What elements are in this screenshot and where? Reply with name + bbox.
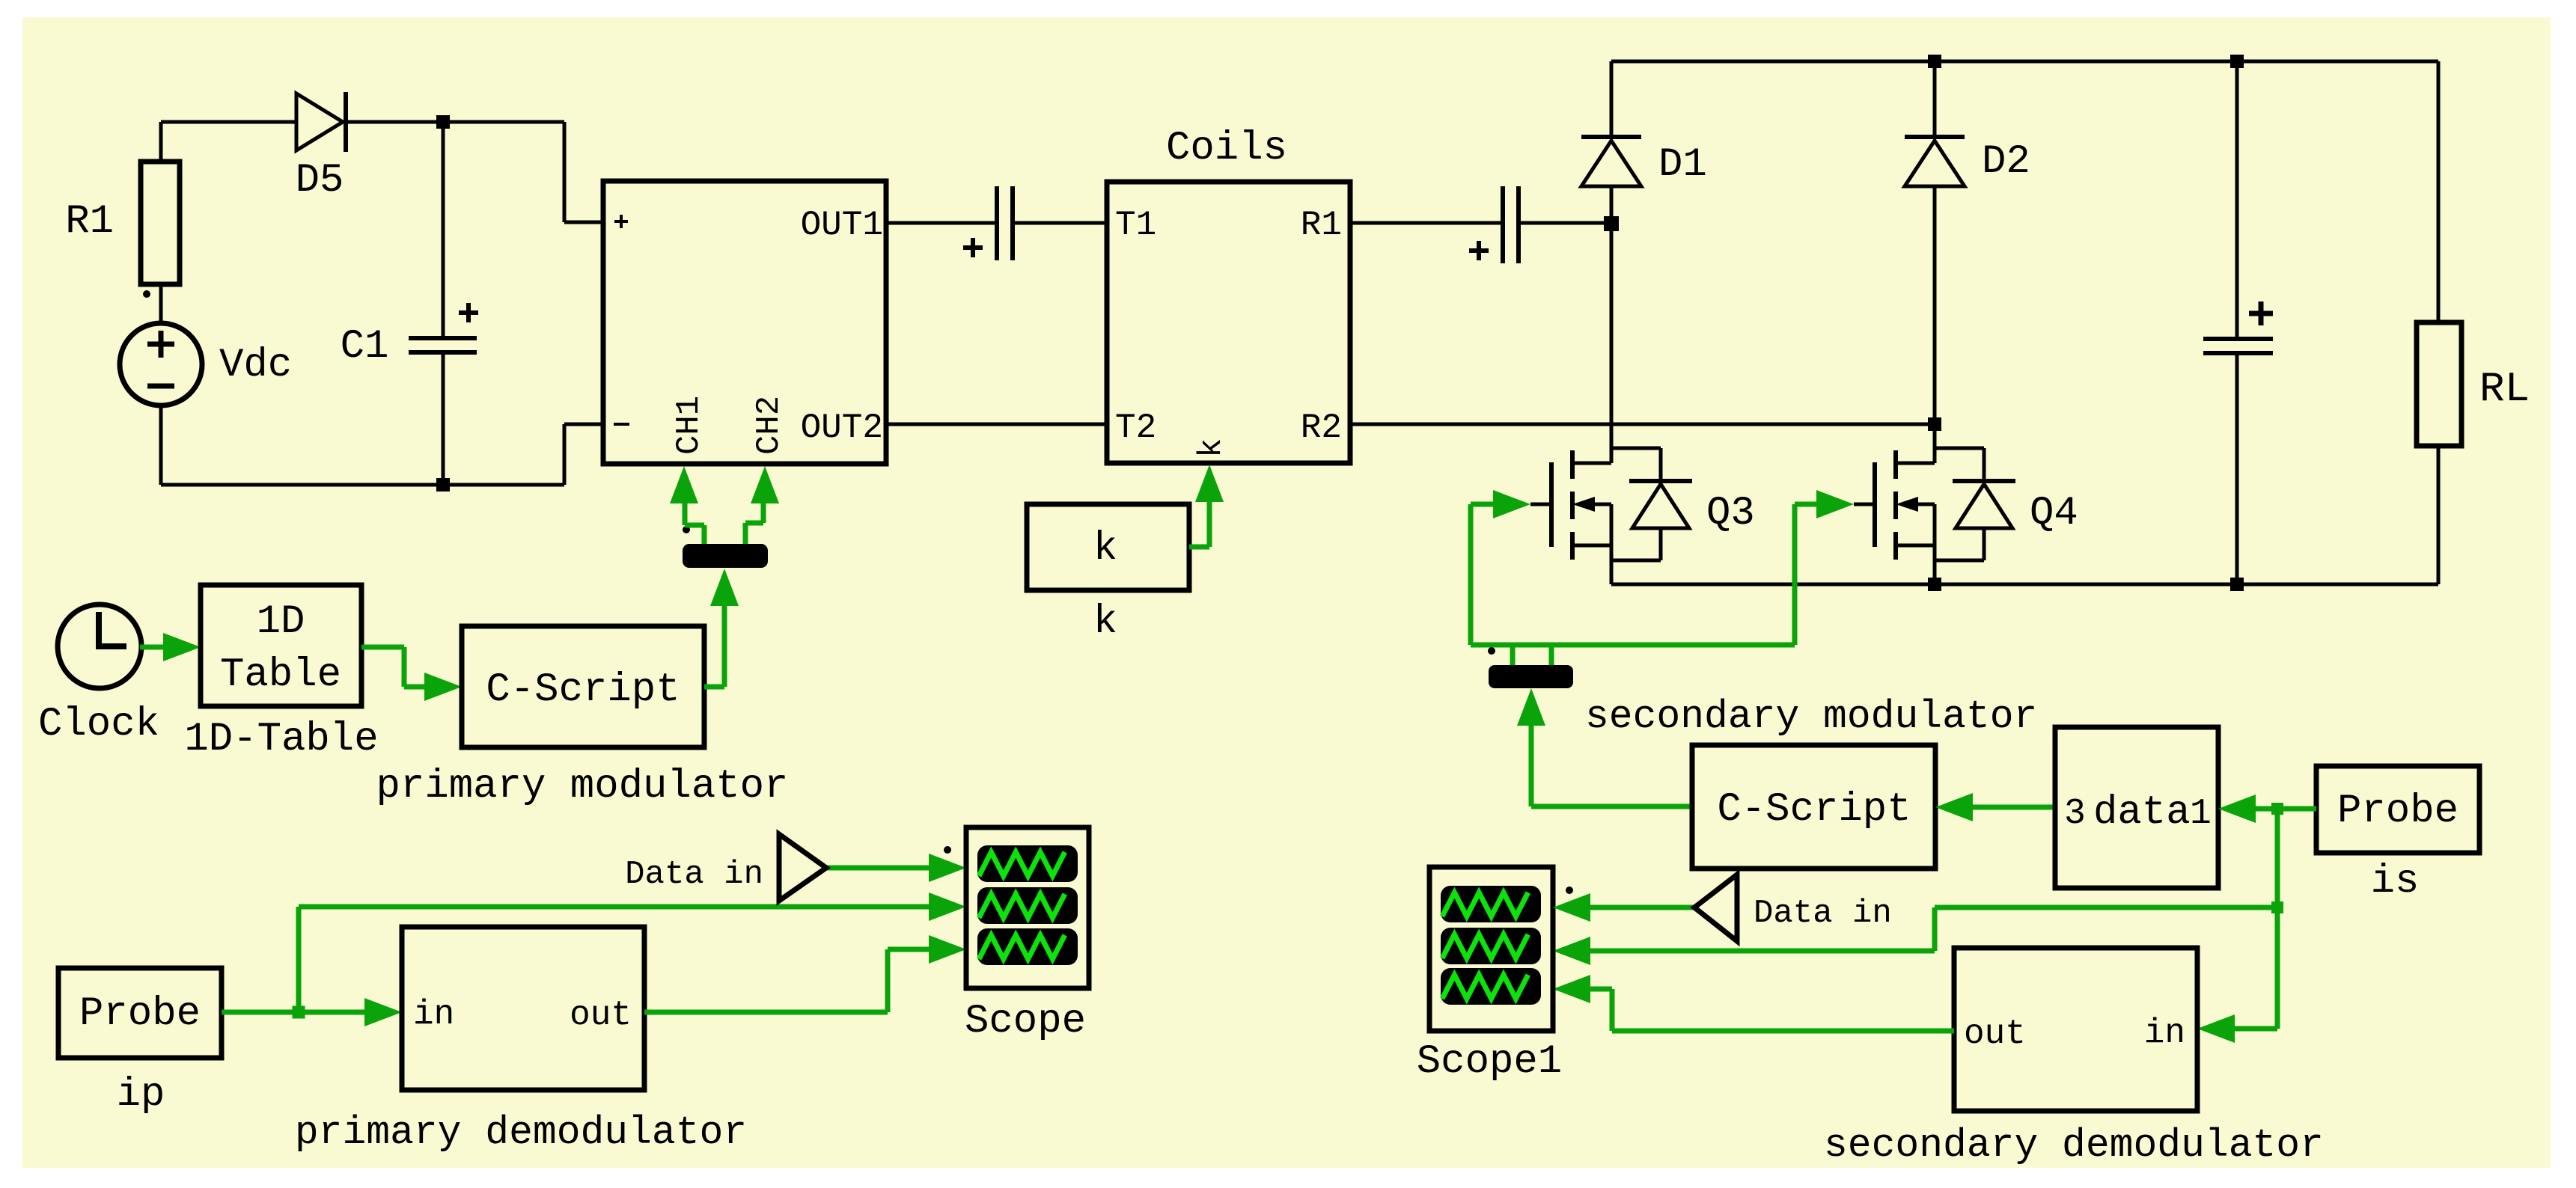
svg-text:Probe: Probe xyxy=(79,991,201,1037)
svg-text:Vdc: Vdc xyxy=(219,343,292,388)
svg-text:out: out xyxy=(570,996,632,1035)
svg-text:Coils: Coils xyxy=(1166,126,1287,171)
svg-text:OUT2: OUT2 xyxy=(801,408,883,447)
svg-text:in: in xyxy=(2144,1014,2185,1053)
svg-text:Probe: Probe xyxy=(2337,789,2459,834)
svg-text:C-Script: C-Script xyxy=(486,667,680,713)
svg-text:k: k xyxy=(1193,438,1230,458)
svg-text:Q3: Q3 xyxy=(1706,491,1755,536)
svg-text:Scope1: Scope1 xyxy=(1417,1039,1562,1085)
svg-text:T1: T1 xyxy=(1115,206,1156,245)
svg-text:OUT1: OUT1 xyxy=(801,206,883,245)
svg-text:Clock: Clock xyxy=(38,702,159,747)
svg-text:Q4: Q4 xyxy=(2030,491,2078,536)
svg-text:C1: C1 xyxy=(341,324,389,370)
svg-text:secondary demodulator: secondary demodulator xyxy=(1824,1123,2324,1168)
svg-text:1: 1 xyxy=(2190,794,2212,834)
svg-text:in: in xyxy=(413,995,454,1034)
svg-text:CH2: CH2 xyxy=(751,396,788,455)
svg-text:Data in: Data in xyxy=(625,856,763,893)
svg-text:ip: ip xyxy=(117,1072,165,1118)
svg-text:D5: D5 xyxy=(296,158,344,203)
svg-text:D1: D1 xyxy=(1658,142,1707,188)
svg-text:secondary modulator: secondary modulator xyxy=(1585,694,2037,739)
svg-text:RL: RL xyxy=(2479,365,2530,413)
svg-text:1D-Table: 1D-Table xyxy=(184,717,378,762)
svg-text:R1: R1 xyxy=(65,199,114,245)
svg-text:primary modulator: primary modulator xyxy=(376,764,789,809)
svg-text:out: out xyxy=(1964,1014,2026,1053)
svg-text:3: 3 xyxy=(2064,794,2086,834)
svg-text:R1: R1 xyxy=(1301,206,1342,245)
svg-text:D2: D2 xyxy=(1982,139,2030,185)
svg-text:k: k xyxy=(1093,526,1117,572)
svg-text:Table: Table xyxy=(220,652,341,698)
svg-text:is: is xyxy=(2371,859,2420,904)
svg-text:R2: R2 xyxy=(1301,408,1342,447)
svg-text:Data in: Data in xyxy=(1754,895,1892,932)
svg-text:primary demodulator: primary demodulator xyxy=(295,1110,747,1155)
svg-text:1D: 1D xyxy=(257,599,305,645)
svg-text:CH1: CH1 xyxy=(671,396,708,455)
svg-text:Scope: Scope xyxy=(965,999,1086,1044)
svg-text:T2: T2 xyxy=(1115,408,1156,447)
svg-text:k: k xyxy=(1093,599,1117,645)
svg-text:C-Script: C-Script xyxy=(1717,787,1911,833)
svg-text:data: data xyxy=(2093,790,2191,836)
